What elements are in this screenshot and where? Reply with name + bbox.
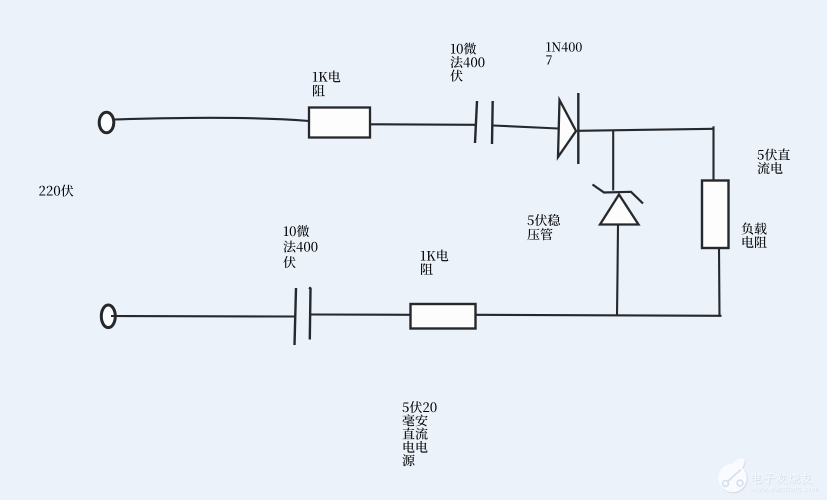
wire Z1 to bottom wire [617, 225, 618, 316]
terminal T1 (220V input top) [99, 112, 114, 133]
wire top-right corner down to load resistor R3 [712, 126, 714, 180]
capacitor C1 10uF400V (top) [475, 101, 477, 143]
wire R3 to bottom-right corner node [718, 248, 721, 316]
bottom wire R2 to bottom-right corner [476, 315, 722, 316]
diode D1 cathode bar [577, 93, 579, 164]
label 1N4007 for D1 [546, 42, 550, 51]
wire C2 to resistor R2 [311, 313, 411, 315]
wire from T1 to resistor R1 [114, 118, 309, 121]
watermark logo elecfans [718, 458, 748, 493]
wire D1 to top-right corner node [578, 129, 714, 131]
label 220伏 source [39, 186, 45, 196]
resistor R1 1K (top) [309, 108, 370, 138]
zener Z1 cathode bar (hand-drawn) [593, 185, 644, 204]
zener Z1 triangle [600, 195, 639, 225]
capacitor C2 10uF400V (bottom) [295, 288, 297, 345]
label 1K电阻 for R1 [313, 72, 318, 82]
diode D1 1N4007 triangle [558, 100, 576, 157]
watermark text www.elecfans.com [750, 488, 755, 492]
wire R1 to capacitor C1 [370, 123, 475, 126]
resistor R2 1K (bottom) [411, 304, 476, 329]
wire T2 to capacitor C2 [111, 315, 295, 318]
label 负载电阻 for R3 [742, 222, 754, 234]
load resistor R3 [702, 181, 729, 249]
wire C1 to diode D1 [493, 126, 558, 129]
label 5伏20毫安直流电源 [403, 402, 409, 412]
terminal T2 (220V input bottom) [101, 305, 115, 328]
wire junction stub down to zener Z1 [612, 130, 614, 190]
label 1K电阻 for R2 [421, 251, 426, 261]
watermark text 电子发烧友 [752, 473, 762, 484]
label 10微法400伏 for C2 [284, 226, 289, 236]
label 5伏直流电 output [758, 150, 764, 160]
label 5伏稳压管 for Z1 [528, 215, 534, 225]
label 10微法400伏 for C1 [451, 44, 456, 54]
